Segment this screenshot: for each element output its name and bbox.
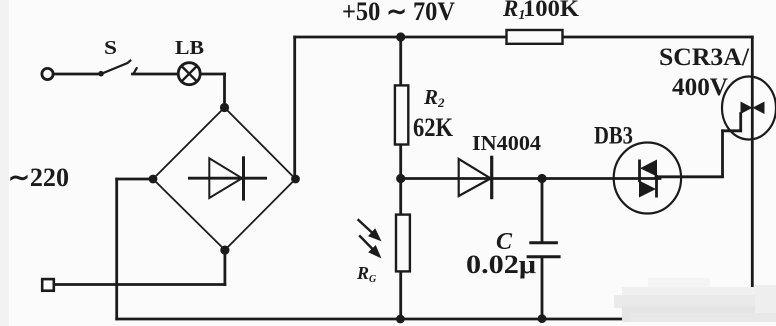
svg-text:LB: LB: [175, 37, 204, 59]
svg-text:SCR3A/: SCR3A/: [659, 44, 750, 71]
svg-text:DB3: DB3: [594, 123, 633, 150]
svg-text:S: S: [104, 37, 117, 59]
svg-text:+50 ∼ 70V: +50 ∼ 70V: [342, 0, 455, 26]
svg-text:100K: 100K: [523, 0, 579, 21]
svg-text:400V: 400V: [672, 74, 728, 101]
svg-text:0.02μ: 0.02μ: [466, 250, 536, 279]
svg-text:∼220: ∼220: [8, 163, 69, 192]
svg-text:IN4004: IN4004: [472, 131, 542, 155]
svg-text:62K: 62K: [413, 113, 454, 142]
